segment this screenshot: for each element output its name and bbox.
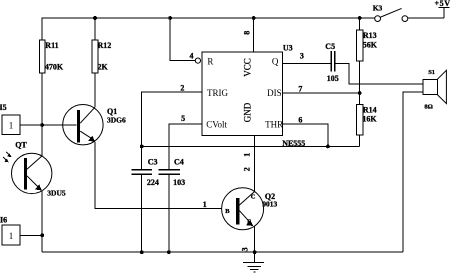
speaker S1 labels bbox=[424, 69, 435, 111]
svg-text:S1: S1 bbox=[428, 69, 435, 76]
svg-text:7: 7 bbox=[298, 85, 302, 94]
node I5 junction dot bbox=[40, 123, 44, 127]
port I6 bbox=[2, 225, 20, 245]
power +5V bbox=[439, 8, 450, 18]
resistor R13 bbox=[356, 30, 363, 61]
wire top rail from R11 to switch bbox=[42, 18, 375, 40]
svg-text:5: 5 bbox=[181, 114, 185, 123]
wire rail to R13 bbox=[359, 18, 361, 30]
wire I6 to node bbox=[20, 234, 42, 236]
svg-text:VCC: VCC bbox=[243, 58, 253, 77]
svg-text:1: 1 bbox=[203, 200, 207, 209]
svg-text:C4: C4 bbox=[174, 158, 184, 167]
wire VCC pin 8 bbox=[253, 18, 255, 52]
pin number 3 bbox=[300, 51, 304, 60]
node C4 rail dot bbox=[167, 250, 171, 254]
svg-text:103: 103 bbox=[173, 178, 185, 187]
svg-text:I6: I6 bbox=[0, 216, 7, 225]
resistor R14 labels bbox=[362, 106, 377, 124]
transistor QT phototransistor bbox=[12, 153, 52, 193]
transistor QT labels bbox=[15, 140, 66, 197]
svg-text:C5: C5 bbox=[325, 42, 335, 51]
capacitor C5 bbox=[331, 51, 335, 71]
node DIS junction dot bbox=[358, 91, 362, 95]
wire R11 bottom to QT collector bbox=[41, 73, 43, 156]
capacitor C5 labels bbox=[325, 42, 338, 83]
wire TRIG pin 2 bbox=[142, 92, 202, 169]
node THR junction dot bbox=[326, 145, 330, 149]
wire I5 to node bbox=[20, 124, 42, 126]
wire Q1 emitter to Q2 base bbox=[95, 142, 236, 209]
pin number 1 Q2 base bbox=[203, 200, 207, 209]
wire switch to +5V stem bbox=[408, 17, 444, 19]
svg-text:K3: K3 bbox=[373, 4, 383, 13]
pin number 7 bbox=[298, 85, 302, 94]
svg-text:NE555: NE555 bbox=[282, 139, 305, 148]
pin number 3 rotated bbox=[241, 247, 250, 251]
wire TRIG/THR net horizontal bbox=[142, 145, 360, 147]
node pin4 rail dot bbox=[168, 16, 172, 20]
svg-text:R11: R11 bbox=[45, 41, 58, 50]
wire GND pin 1 to Q2 collector bbox=[254, 135, 256, 191]
wire CVolt pin 5 bbox=[169, 124, 202, 169]
transistor Q2 labels bbox=[225, 192, 277, 225]
switch K3 bbox=[375, 8, 408, 21]
svg-text:2K: 2K bbox=[98, 62, 109, 71]
svg-text:224: 224 bbox=[147, 178, 159, 187]
node VCC rail dot bbox=[252, 16, 256, 20]
pin number 8 rotated bbox=[243, 31, 252, 35]
svg-text:DIS: DIS bbox=[267, 88, 282, 98]
node R12 top rail dot bbox=[93, 16, 97, 20]
resistor R11 bbox=[39, 40, 45, 73]
wire Q1 base bbox=[42, 124, 76, 126]
resistor R11 labels bbox=[45, 41, 64, 71]
op-amp U3 NE555 body bbox=[202, 52, 283, 135]
svg-text:3DG6: 3DG6 bbox=[107, 116, 126, 125]
svg-text:6: 6 bbox=[298, 116, 302, 125]
svg-text:3DU5: 3DU5 bbox=[47, 188, 66, 197]
svg-text:2: 2 bbox=[243, 167, 252, 171]
port I5 bbox=[2, 115, 20, 135]
wire Q2 emitter to ground rail bbox=[254, 226, 256, 252]
svg-text:2: 2 bbox=[180, 84, 184, 93]
wire rail to pin 4 R bbox=[170, 18, 195, 61]
svg-text:4: 4 bbox=[190, 52, 194, 61]
capacitor C3 labels bbox=[147, 158, 159, 188]
svg-text:1: 1 bbox=[9, 121, 14, 131]
svg-text:56K: 56K bbox=[363, 41, 378, 50]
wire DIS node to R14 bbox=[359, 93, 361, 105]
capacitor C4 labels bbox=[173, 158, 185, 188]
wire THR pin 6 bbox=[283, 124, 328, 146]
svg-text:C3: C3 bbox=[148, 158, 158, 167]
pin number 1 rotated bbox=[243, 153, 252, 157]
svg-text:1: 1 bbox=[9, 231, 14, 241]
wire C5 to speaker bbox=[335, 63, 423, 84]
svg-text:R: R bbox=[207, 57, 213, 67]
wire QT emitter down to bottom rail corner bbox=[41, 191, 43, 252]
svg-text:1: 1 bbox=[243, 153, 252, 157]
svg-text:R13: R13 bbox=[363, 31, 377, 40]
svg-text:U3: U3 bbox=[283, 44, 293, 53]
power +5V label bbox=[435, 0, 451, 8]
pin number 2 rotated bbox=[243, 167, 252, 171]
svg-text:470K: 470K bbox=[45, 62, 64, 71]
svg-text:GND: GND bbox=[243, 102, 253, 122]
svg-text:B: B bbox=[225, 208, 230, 215]
resistor R13 labels bbox=[363, 31, 378, 50]
svg-text:Q1: Q1 bbox=[107, 107, 117, 116]
capacitor C3 bbox=[132, 170, 152, 175]
wire R14 bottom to THR net bbox=[359, 135, 361, 146]
node R13 rail dot bbox=[358, 16, 362, 20]
svg-text:I5: I5 bbox=[0, 103, 7, 112]
op-amp U3 designator labels bbox=[282, 44, 305, 148]
node C3 rail dot bbox=[140, 250, 144, 254]
wire speaker bottom to rail bbox=[403, 92, 423, 252]
svg-text:THR: THR bbox=[265, 120, 283, 130]
svg-text:Q: Q bbox=[272, 57, 279, 67]
wire rail to R12 bbox=[94, 18, 96, 40]
wire R12 bottom to Q1 collector bbox=[94, 73, 96, 107]
svg-text:9013: 9013 bbox=[262, 200, 277, 209]
ground bbox=[243, 252, 264, 272]
op-amp U3 pin names bbox=[206, 57, 283, 130]
wire DIS pin 7 bbox=[283, 92, 360, 94]
pin number 4 bbox=[190, 52, 194, 61]
svg-text:E: E bbox=[247, 218, 251, 225]
svg-text:3: 3 bbox=[241, 247, 250, 251]
pin number 6 bbox=[298, 116, 302, 125]
transistor Q2 bbox=[222, 188, 264, 230]
pin number 2 bbox=[180, 84, 184, 93]
svg-text:16K: 16K bbox=[362, 115, 377, 124]
svg-text:C: C bbox=[251, 194, 256, 201]
svg-text:TRIG: TRIG bbox=[207, 88, 228, 98]
wire Q pin 3 to C5 bbox=[283, 62, 332, 64]
resistor R14 bbox=[356, 105, 363, 135]
capacitor C4 bbox=[159, 170, 180, 175]
transistor QT light arrows bbox=[3, 152, 12, 162]
svg-text:105: 105 bbox=[327, 74, 339, 83]
resistor R12 labels bbox=[98, 41, 112, 71]
transistor Q1 labels bbox=[107, 107, 126, 125]
switch K3 label bbox=[373, 4, 383, 13]
speaker S1 bbox=[423, 70, 446, 103]
svg-text:R12: R12 bbox=[98, 41, 112, 50]
svg-text:3: 3 bbox=[300, 51, 304, 60]
svg-text:8: 8 bbox=[243, 31, 252, 35]
resistor R12 bbox=[92, 40, 98, 73]
wire R13 bottom to DIS node bbox=[359, 61, 361, 93]
pin number 5 bbox=[181, 114, 185, 123]
wire C3 bottom to rail bbox=[141, 174, 143, 252]
wire C4 bottom to rail bbox=[168, 174, 170, 252]
svg-text:8Ω: 8Ω bbox=[424, 104, 432, 111]
node Q2 emitter rail dot bbox=[253, 250, 257, 254]
svg-text:QT: QT bbox=[15, 140, 27, 149]
svg-text:CVolt: CVolt bbox=[206, 120, 227, 130]
transistor Q1 bbox=[63, 105, 103, 145]
node TRIG/C3 junction dot bbox=[140, 145, 144, 149]
svg-text:R14: R14 bbox=[363, 106, 377, 115]
node I6 junction dot bbox=[40, 233, 44, 237]
svg-text:+5V: +5V bbox=[435, 0, 451, 8]
pin 4 bubble bbox=[195, 58, 200, 63]
wire bottom rail bbox=[42, 251, 403, 253]
